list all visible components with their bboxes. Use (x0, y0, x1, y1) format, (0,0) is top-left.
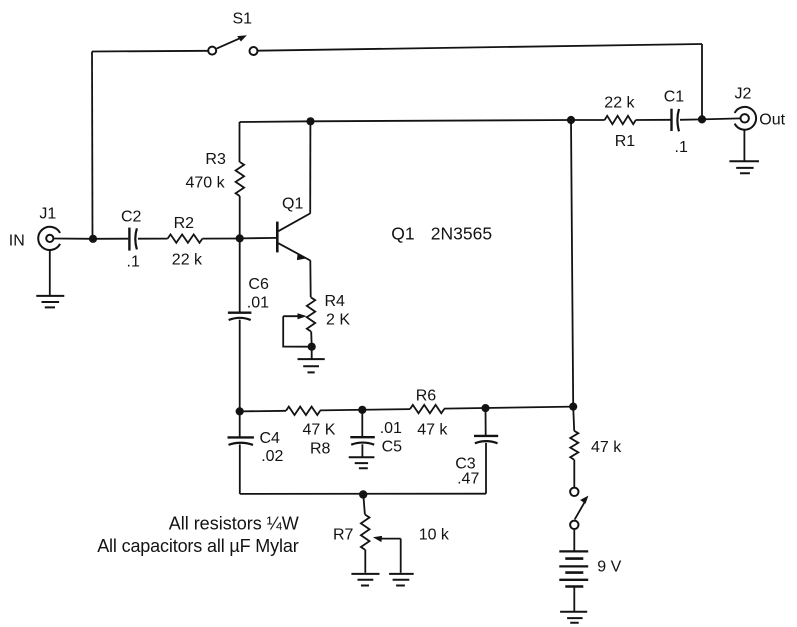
svg-text:.01: .01 (380, 420, 402, 437)
wire: lower bus left segment (240, 410, 286, 413)
resistor R7 (pot) (361, 495, 401, 573)
svg-text:R6: R6 (416, 387, 437, 404)
svg-text:22 k: 22 k (172, 251, 203, 268)
wire: mid bus left corner to collector node (240, 120, 311, 123)
svg-text:R7: R7 (333, 527, 354, 544)
svg-text:10 k: 10 k (419, 527, 450, 544)
ground (R7 left) (351, 574, 379, 586)
battery 9 V (559, 551, 588, 586)
svg-text:2 K: 2 K (326, 312, 350, 329)
wire: J1 to input node (54, 238, 94, 240)
wire: bottom bus (240, 493, 486, 495)
wire: top-right vertical down to C1/J2 node (701, 44, 703, 119)
node: collector junction (306, 117, 314, 125)
svg-text:Q1: Q1 (282, 196, 303, 213)
svg-text:C6: C6 (248, 276, 269, 293)
svg-text:470 k: 470 k (186, 174, 226, 191)
node: lower bus left junction (236, 407, 244, 415)
wire: top horizontal S1 to right corner (258, 44, 702, 51)
resistor R6 (410, 405, 444, 413)
node: R4 wiper/bottom junction (308, 343, 316, 351)
capacitor C1 (672, 109, 680, 132)
svg-text:C5: C5 (382, 439, 403, 456)
capacitor C3 (474, 408, 498, 494)
svg-text:9 V: 9 V (597, 558, 621, 575)
ground (J2) (729, 130, 759, 174)
wire: right bus node to R1 (571, 119, 605, 121)
svg-text:All resistors ¼W: All resistors ¼W (169, 514, 299, 534)
svg-text:.1: .1 (675, 139, 688, 156)
wire: output node to J2 (702, 118, 741, 119)
node: base junction (236, 234, 244, 242)
jack J1 (38, 227, 60, 250)
wire: right vertical (collector bus down to lower bus) (571, 120, 573, 407)
ground (C5) (349, 457, 375, 468)
svg-text:J1: J1 (39, 206, 56, 223)
svg-text:Out: Out (759, 111, 785, 128)
svg-text:C2: C2 (121, 208, 142, 225)
svg-text:R3: R3 (205, 151, 226, 168)
switch S2 (power) (570, 488, 588, 551)
svg-text:.1: .1 (127, 254, 140, 271)
switch S1 (208, 35, 257, 55)
resistor R2 (168, 234, 203, 242)
wire: lower bus R8 to R6 (320, 409, 410, 410)
resistor R3 (236, 122, 245, 238)
svg-text:C4: C4 (260, 430, 281, 447)
svg-text:Q1: Q1 (391, 223, 414, 243)
svg-text:.47: .47 (457, 471, 479, 488)
wire: mid bus collector node to right vertical (311, 120, 572, 121)
capacitor C6 (228, 238, 252, 411)
node: output junction (698, 115, 706, 123)
svg-text:22 k: 22 k (604, 94, 635, 111)
svg-text:C1: C1 (664, 88, 685, 105)
ground (R4) (298, 347, 325, 373)
resistor 47 k (supply) (570, 407, 578, 488)
wire: base node to Q1 base (240, 237, 278, 240)
svg-text:.01: .01 (247, 295, 269, 312)
ground (J1) (36, 250, 64, 307)
wire: C1 to output node (680, 118, 702, 120)
svg-text:.02: .02 (261, 448, 283, 465)
wire: C2 to R2 (138, 238, 168, 240)
node: R7 junction (359, 490, 367, 498)
node: input junction (89, 235, 97, 243)
node: right bus top junction (567, 116, 575, 124)
node: C5 junction (358, 406, 366, 414)
wire: R1 to C1 (636, 119, 671, 121)
svg-text:47 K: 47 K (303, 422, 336, 439)
svg-text:All capacitors all µF Mylar: All capacitors all µF Mylar (97, 536, 299, 556)
svg-text:2N3565: 2N3565 (431, 223, 492, 243)
ground (battery) (560, 588, 587, 623)
svg-text:R8: R8 (310, 441, 331, 458)
svg-text:47 k: 47 k (591, 439, 622, 456)
svg-text:R4: R4 (325, 293, 346, 310)
transistor Q1 (277, 121, 310, 297)
wire: top-left horizontal to S1 left terminal (92, 50, 208, 53)
node: lower bus right junction (569, 403, 577, 411)
capacitor C2 (129, 228, 137, 251)
svg-text:S1: S1 (233, 11, 253, 28)
wire: left feedback vertical (input node to top-left corner) (91, 52, 94, 239)
svg-text:R2: R2 (174, 215, 195, 232)
label Q1 type 2N3565 (391, 223, 492, 243)
node: C3 junction (481, 404, 489, 412)
resistor R8 (286, 407, 320, 415)
capacitor C5 (350, 410, 375, 457)
resistor R4 (pot) (283, 297, 315, 346)
wire: input node to C2 (93, 238, 128, 240)
capacitor C4 (228, 411, 254, 494)
svg-text:J2: J2 (735, 85, 752, 102)
ground (R7 wiper) (389, 574, 414, 586)
jack J2 (735, 107, 756, 130)
wire: lower bus R6 to right vertical (444, 407, 573, 409)
resistor R1 (605, 116, 636, 124)
svg-text:IN: IN (9, 233, 25, 250)
wire: R2 to base node (202, 238, 239, 240)
svg-text:R1: R1 (615, 133, 636, 150)
svg-text:47 k: 47 k (417, 422, 448, 439)
